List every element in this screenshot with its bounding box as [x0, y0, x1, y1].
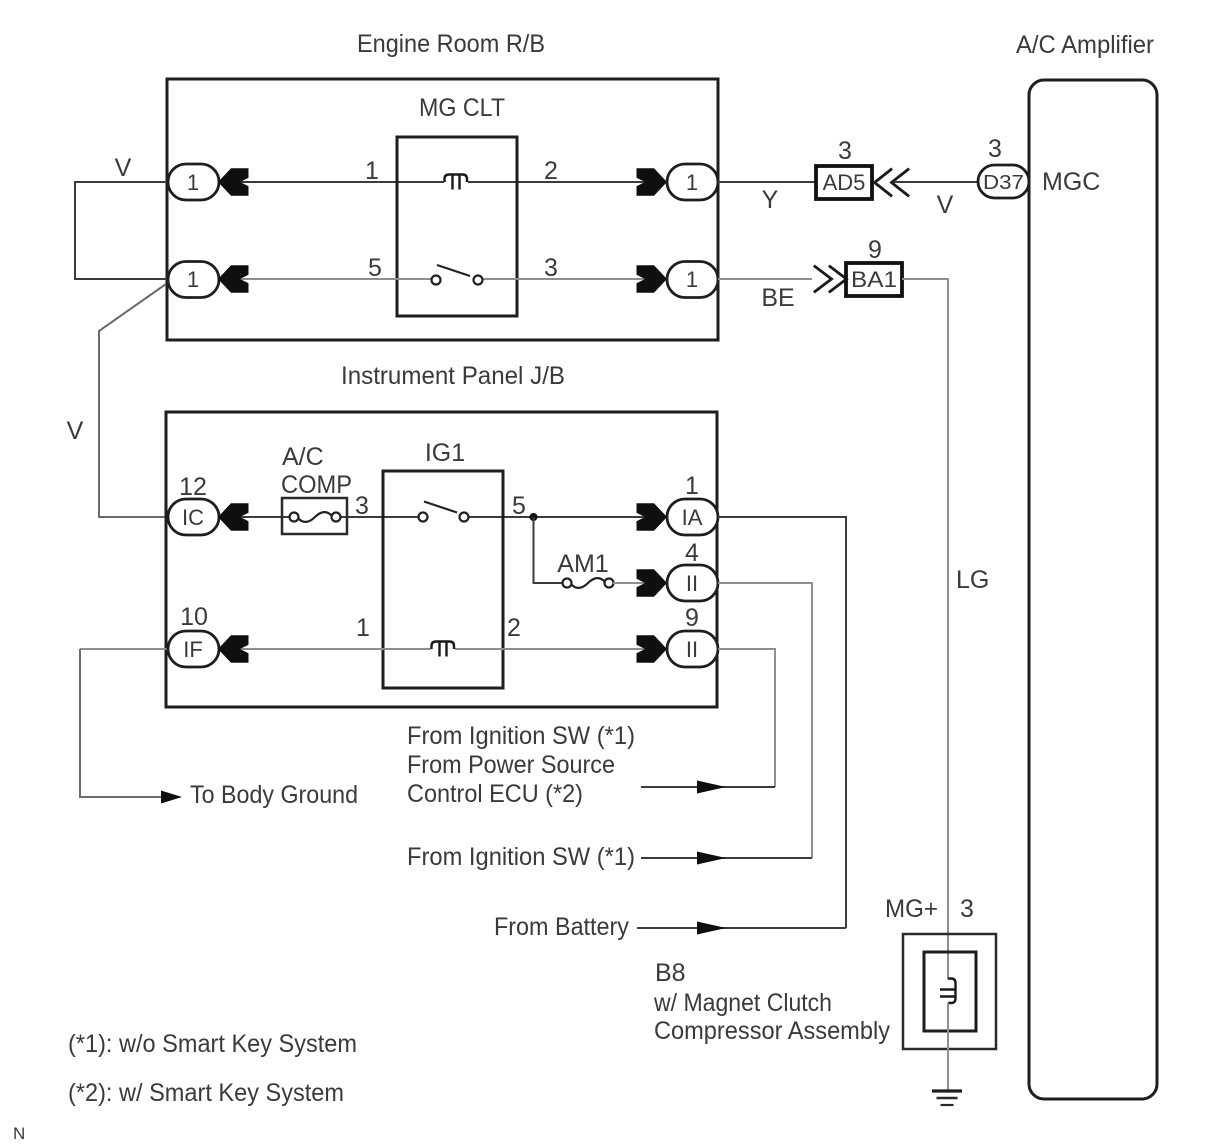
svg-text:1: 1: [686, 170, 698, 195]
chevrons >>: [815, 267, 847, 292]
wire AM1 to II4: [613, 582, 667, 584]
wire IF to IG1 coil: [219, 648, 431, 650]
wire LG (BA1 right, down to magnet clutch): [902, 279, 948, 979]
wire IG1 switch to IA: [464, 516, 667, 518]
svg-text:3: 3: [355, 492, 369, 520]
wire from II4 to ignition drop: [718, 583, 812, 858]
wire row2 left connector to switch: [219, 278, 436, 280]
svg-text:V: V: [937, 191, 954, 219]
node dot: [530, 513, 538, 521]
svg-text:9: 9: [685, 604, 699, 632]
connector 1 (engine right, row2): [637, 265, 668, 293]
wire IF to left: [80, 648, 168, 650]
arrow battery row: [697, 922, 726, 935]
clutch coil: [948, 979, 956, 1004]
svg-text:From Ignition SW (*1): From Ignition SW (*1): [407, 722, 635, 750]
svg-text:3: 3: [988, 135, 1002, 163]
svg-text:AD5: AD5: [823, 170, 866, 195]
arrow to body ground: [161, 791, 182, 804]
svg-text:II: II: [686, 571, 698, 596]
wire battery row: [637, 927, 846, 929]
wire row1 coil to right connector: [468, 181, 667, 183]
fuse A/C COMP box: [282, 498, 347, 534]
svg-text:w/ Magnet Clutch: w/ Magnet Clutch: [653, 989, 832, 1017]
svg-text:B8: B8: [655, 959, 686, 987]
svg-text:Compressor Assembly: Compressor Assembly: [654, 1017, 890, 1045]
Instrument Panel J/B box: [166, 412, 717, 707]
svg-text:AM1: AM1: [557, 550, 608, 578]
arrow ECU row: [697, 781, 726, 794]
connector IC: [168, 499, 219, 535]
svg-text:(*2): w/ Smart Key System: (*2): w/ Smart Key System: [68, 1079, 344, 1107]
svg-text:1: 1: [187, 170, 199, 195]
svg-text:COMP: COMP: [281, 471, 352, 499]
svg-text:LG: LG: [956, 566, 989, 594]
svg-text:IA: IA: [682, 505, 703, 530]
relay coil (MG CLT): [445, 175, 468, 183]
svg-text:2: 2: [507, 614, 521, 642]
svg-text:Y: Y: [762, 186, 779, 214]
relay switch (MG CLT): [432, 276, 441, 285]
svg-text:1: 1: [187, 267, 199, 292]
terminal arrow (IC): [218, 503, 249, 531]
chevrons <<: [875, 170, 909, 196]
svg-text:3: 3: [544, 254, 558, 282]
wire from II9 to ECU drop: [718, 649, 775, 787]
svg-text:(*1): w/o Smart Key System: (*1): w/o Smart Key System: [68, 1030, 357, 1058]
svg-text:1: 1: [365, 157, 379, 185]
svg-text:BA1: BA1: [851, 267, 897, 292]
wire row1 inside engine box (pin1 to coil): [219, 181, 444, 183]
wire ignition row: [641, 857, 812, 859]
relay IG1 box: [383, 471, 503, 688]
A/C amplifier box: [1029, 80, 1157, 1099]
svg-text:3: 3: [838, 137, 852, 165]
svg-text:BE: BE: [761, 284, 794, 312]
svg-text:1: 1: [686, 267, 698, 292]
wire Y (engine box to AD5): [718, 181, 816, 183]
svg-text:IF: IF: [183, 637, 203, 662]
connector II (pin 9): [667, 631, 718, 667]
connector IF: [168, 631, 219, 667]
wire fuse to IG1 switch: [340, 516, 423, 518]
relay coil (IG1): [432, 642, 455, 650]
Engine Room R/B box: [167, 79, 718, 340]
svg-text:12: 12: [179, 473, 207, 501]
svg-text:3: 3: [960, 895, 974, 923]
wire from IA to battery drop: [718, 517, 846, 928]
connector IA: [667, 499, 718, 535]
wire ECU row: [641, 786, 775, 788]
svg-text:V: V: [67, 417, 84, 445]
svg-text:10: 10: [180, 603, 208, 631]
svg-text:MG CLT: MG CLT: [419, 94, 505, 122]
magnet clutch inner box: [924, 952, 976, 1031]
wire BE (engine box to BA1): [718, 278, 812, 280]
terminal arrow (II pin9): [637, 635, 668, 663]
svg-text:1: 1: [356, 614, 370, 642]
splice BA1: [846, 263, 902, 296]
wire row2 switch to right connector: [478, 278, 667, 280]
terminal arrow (IA): [637, 503, 668, 531]
svg-text:2: 2: [544, 157, 558, 185]
fuse AM1: [563, 579, 572, 588]
svg-text:From Battery: From Battery: [494, 913, 629, 941]
svg-text:D37: D37: [983, 172, 1024, 194]
wire V diagonal (engine row2 to IC): [99, 284, 167, 517]
svg-text:Engine Room R/B: Engine Room R/B: [357, 30, 545, 58]
svg-text:A/C: A/C: [282, 443, 324, 471]
svg-text:1: 1: [685, 472, 699, 500]
wire through clutch to ground: [947, 1003, 949, 1091]
svg-text:9: 9: [868, 236, 882, 264]
svg-text:4: 4: [685, 539, 699, 567]
svg-text:A/C Amplifier: A/C Amplifier: [1016, 31, 1154, 59]
connector 1 (engine left, row1): [168, 164, 219, 200]
branch from node to AM1: [534, 517, 564, 583]
connector II (pin 4): [667, 565, 718, 601]
svg-text:V: V: [115, 154, 132, 182]
terminal arrow (II pin4): [637, 569, 668, 597]
svg-text:Instrument Panel J/B: Instrument Panel J/B: [341, 362, 565, 390]
svg-text:5: 5: [368, 254, 382, 282]
fuse symbol A/C COMP: [290, 513, 299, 522]
relay switch (IG1): [419, 513, 428, 522]
svg-text:N: N: [13, 1124, 25, 1143]
wire IC to fuse: [219, 516, 289, 518]
connector 1 (engine left, row2): [168, 262, 219, 298]
wire IG1 coil to II pin9: [455, 648, 667, 650]
svg-text:IG1: IG1: [425, 439, 465, 467]
wire V (chevrons to D37): [894, 181, 978, 183]
svg-text:From Power Source: From Power Source: [407, 751, 615, 779]
svg-text:MG+: MG+: [885, 895, 938, 923]
terminal arrow (IF): [218, 635, 249, 663]
ground: [932, 1089, 962, 1092]
svg-text:From Ignition SW (*1): From Ignition SW (*1): [407, 843, 635, 871]
magnet clutch outer box: [903, 934, 996, 1049]
wire to body ground: [80, 649, 163, 797]
svg-text:MGC: MGC: [1042, 168, 1100, 196]
svg-text:IC: IC: [182, 505, 204, 530]
svg-text:To Body Ground: To Body Ground: [190, 781, 358, 809]
connector 1 (engine right, row1): [637, 168, 668, 196]
terminal arrow (left, row1): [218, 168, 249, 196]
svg-text:Control ECU (*2): Control ECU (*2): [407, 780, 583, 808]
arrow ignition row: [697, 852, 726, 865]
svg-text:5: 5: [512, 492, 526, 520]
connector D37: [978, 165, 1029, 198]
splice AD5: [816, 166, 872, 199]
relay MG CLT box: [397, 137, 517, 316]
wire V loop left of engine box: [75, 182, 168, 279]
svg-text:II: II: [686, 637, 698, 662]
terminal arrow (left, row2): [218, 265, 249, 293]
